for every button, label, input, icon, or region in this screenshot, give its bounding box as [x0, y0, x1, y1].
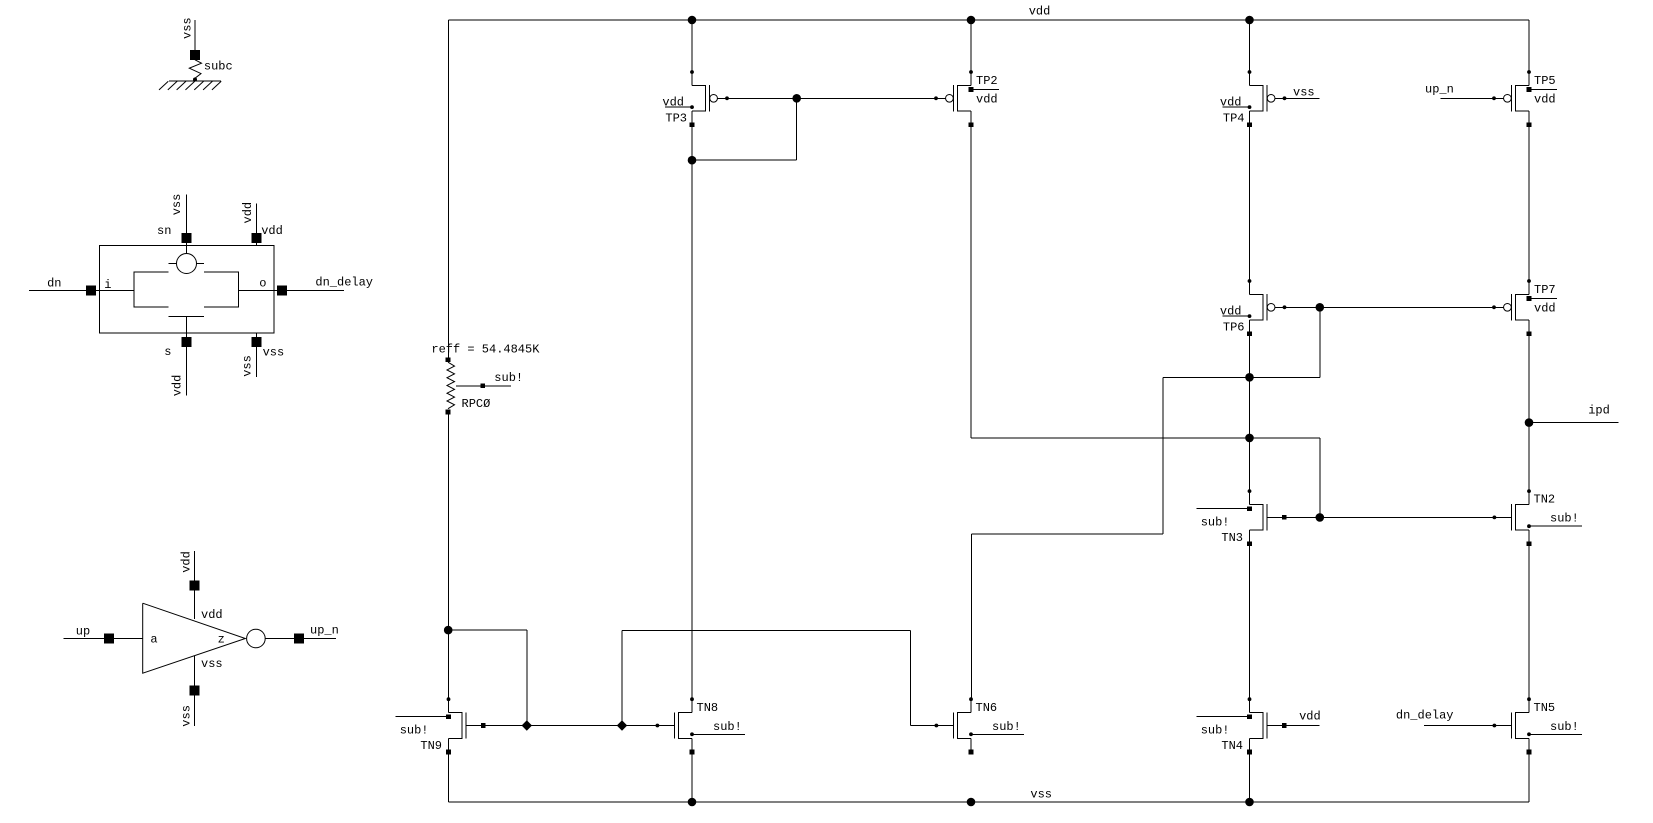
svg-text:TN8: TN8 — [697, 701, 719, 715]
svg-text:TN4: TN4 — [1221, 739, 1243, 753]
svg-text:dn: dn — [47, 276, 61, 290]
transistor TP7 — [1492, 279, 1557, 336]
net label vss — [1030, 788, 1052, 802]
transistor TP4 — [1220, 70, 1287, 127]
wire col4 (TP4/TP6/TN3/TN4) — [1249, 20, 1251, 802]
svg-text:vdd: vdd — [1220, 96, 1242, 110]
svg-text:sub!: sub! — [992, 720, 1021, 734]
net label dn_delay — [1396, 709, 1454, 723]
wire TP6 diode connection — [1163, 307, 1320, 377]
svg-text:TP3: TP3 — [665, 112, 687, 126]
pin vss of inverter — [190, 656, 223, 726]
svg-text:z: z — [218, 632, 225, 646]
junction vdd rail at TP3 — [688, 16, 697, 25]
wire gate node to resistor node — [449, 630, 527, 725]
junction TP6 gate node — [1316, 303, 1325, 312]
transistor TN6 — [935, 697, 1025, 754]
vdd rail (top) — [449, 19, 1530, 21]
bulk stub sub! of RPC0 — [456, 371, 523, 388]
transistor TN3 — [1197, 489, 1287, 546]
junction vss rail at TN4 — [1245, 798, 1254, 807]
svg-text:sub!: sub! — [1201, 724, 1230, 738]
net label vdd (vertical) — [170, 375, 184, 397]
wire TN3 gate to TN2 gate — [1267, 516, 1511, 518]
junction resistor bottom node — [444, 626, 453, 635]
svg-text:sub!: sub! — [713, 720, 742, 734]
svg-text:sub!: sub! — [400, 724, 429, 738]
svg-text:TN6: TN6 — [976, 701, 998, 715]
net label vss (vertical) — [179, 705, 193, 727]
wire left column to vss rail — [448, 752, 450, 802]
wire gate node to TN6 gate — [622, 630, 953, 725]
pin vss bottom — [251, 333, 284, 377]
label subc — [204, 59, 233, 73]
wire TP3 gate to TP2 gate — [718, 97, 946, 99]
net label vss (vertical) — [170, 194, 184, 216]
svg-text:vss: vss — [1293, 86, 1315, 100]
svg-text:up_n: up_n — [1425, 83, 1454, 97]
input wire up — [64, 625, 143, 644]
svg-text:vdd: vdd — [976, 93, 998, 107]
inverter I_up_n triangle — [143, 603, 246, 673]
svg-text:TP4: TP4 — [1223, 112, 1245, 126]
svg-text:TN2: TN2 — [1534, 493, 1556, 507]
net label vdd — [1029, 5, 1051, 19]
transistor TN9 — [396, 697, 486, 754]
wire col3 (TP2 drain) — [970, 20, 972, 438]
junction vss rail at TN8 — [688, 798, 697, 807]
junction vdd rail at TP2 — [967, 16, 976, 25]
svg-text:TP6: TP6 — [1223, 321, 1245, 335]
transmission gate bottom gate bar — [168, 316, 204, 395]
svg-text:vdd: vdd — [179, 551, 193, 573]
svg-text:TP5: TP5 — [1534, 74, 1556, 88]
transistor TP5 — [1492, 70, 1557, 127]
wire TN9 gate to TN8 gate — [466, 725, 674, 727]
svg-text:sub!: sub! — [1550, 512, 1579, 526]
transistor TN8 — [656, 697, 746, 754]
svg-text:sub!: sub! — [1201, 515, 1230, 529]
net label vdd (vertical) — [241, 202, 255, 224]
svg-text:vdd: vdd — [1029, 5, 1051, 19]
wire left column bottom — [448, 414, 450, 700]
label reff = 54.4845K — [431, 343, 540, 357]
svg-text:ipd: ipd — [1588, 404, 1610, 418]
svg-text:vdd: vdd — [662, 96, 684, 110]
svg-text:RPCØ: RPCØ — [462, 397, 491, 411]
svg-text:vdd: vdd — [170, 375, 184, 397]
junction TN3 gate node — [1316, 513, 1325, 522]
svg-text:vdd: vdd — [1534, 93, 1556, 107]
svg-text:reff = 54.4845K: reff = 54.4845K — [431, 343, 540, 357]
transistor TP6 — [1220, 279, 1287, 336]
wire output ipd — [1529, 422, 1618, 424]
svg-text:vss: vss — [201, 657, 223, 671]
junction TP3 gate node — [792, 94, 801, 103]
transistor TN2 — [1493, 489, 1583, 546]
svg-text:TN9: TN9 — [420, 739, 442, 753]
ground — [159, 78, 221, 90]
svg-text:subc: subc — [204, 59, 233, 73]
transistor TN4 — [1197, 697, 1287, 754]
svg-text:vdd: vdd — [241, 202, 255, 224]
wire TP6 gate to TP7 gate — [1275, 306, 1504, 308]
svg-text:TN3: TN3 — [1221, 531, 1243, 545]
junction vdd rail at TP4 — [1245, 16, 1254, 25]
junction vss rail at TN6 — [967, 798, 976, 807]
transistor TN5 — [1493, 697, 1583, 754]
junction TP6 drain node — [1245, 373, 1254, 382]
wire mid column (TP3/TN8) — [691, 20, 693, 802]
svg-text:vdd: vdd — [201, 608, 223, 622]
svg-text:vdd: vdd — [1220, 305, 1242, 319]
wire node to TN6 drain — [971, 377, 1162, 699]
resistor subc — [189, 60, 201, 78]
svg-text:vss: vss — [1030, 788, 1052, 802]
svg-text:vss: vss — [241, 355, 255, 377]
svg-text:vss: vss — [263, 346, 285, 360]
wire TP5 gate stub up_n — [1441, 97, 1504, 99]
net label vss (vertical) — [181, 17, 195, 39]
pin sn — [157, 194, 191, 253]
pin i / input wire dn — [29, 276, 134, 295]
wire TP4 gate stub to vss — [1275, 97, 1320, 99]
resistor RPC0 — [446, 358, 455, 415]
pin vdd of inverter — [190, 551, 223, 622]
svg-text:TP7: TP7 — [1534, 283, 1556, 297]
net label vss at TP4 gate — [1293, 86, 1315, 100]
wire TN4 gate stub to vdd — [1267, 725, 1319, 727]
svg-text:up: up — [76, 625, 90, 639]
svg-text:a: a — [150, 632, 157, 646]
svg-text:TN5: TN5 — [1534, 701, 1556, 715]
delay cell I_dn_delay box — [99, 246, 274, 334]
svg-text:dn_delay: dn_delay — [1396, 709, 1454, 723]
net label ipd — [1588, 404, 1610, 418]
svg-text:vss: vss — [170, 194, 184, 216]
junction ipd node — [1525, 418, 1534, 427]
junction TP3 drain node — [688, 156, 697, 165]
junction TN3 drain node — [1245, 434, 1254, 443]
junction TN9 gate node — [522, 720, 532, 730]
net label vss (vertical) — [241, 355, 255, 377]
pin s bottom — [164, 337, 191, 359]
svg-text:vdd: vdd — [261, 224, 283, 238]
wire col5 (TP5/TP7/TN2/TN5) — [1528, 20, 1530, 802]
wire TN5 gate stub dn_delay — [1424, 725, 1511, 727]
transmission gate circle — [168, 254, 204, 274]
transmission gate body — [134, 272, 238, 307]
wire TP3 gate-drain feedback — [692, 98, 797, 160]
svg-text:sn: sn — [157, 224, 171, 238]
svg-text:vss: vss — [179, 705, 193, 727]
svg-text:o: o — [259, 276, 266, 290]
inverter output bubble — [247, 629, 266, 648]
svg-text:vdd: vdd — [1299, 710, 1321, 724]
svg-text:sub!: sub! — [1550, 720, 1579, 734]
svg-text:sub!: sub! — [494, 371, 523, 385]
svg-text:i: i — [104, 278, 111, 292]
net label vdd (vertical) — [179, 551, 193, 573]
transistor TP2 — [934, 70, 999, 127]
svg-text:dn_delay: dn_delay — [315, 276, 373, 290]
net label vdd at TN4 gate — [1299, 710, 1321, 724]
transistor TP3 — [662, 70, 729, 127]
svg-text:s: s — [164, 345, 171, 359]
pin vdd top — [251, 204, 282, 246]
svg-text:vdd: vdd — [1534, 302, 1556, 316]
svg-text:up_n: up_n — [310, 623, 339, 637]
ground vss port (subc symbol pin) — [190, 20, 200, 60]
output wire up_n — [265, 623, 339, 643]
svg-text:vss: vss — [181, 17, 195, 39]
wire left column top — [448, 20, 450, 359]
pin o / output wire dn_delay — [238, 276, 373, 296]
vss rail (bottom) — [449, 801, 1530, 803]
junction TN8 gate node — [617, 720, 627, 730]
net label up_n — [1425, 83, 1454, 97]
svg-text:TP2: TP2 — [976, 74, 998, 88]
label RPC0 — [462, 397, 491, 411]
wire TP2 drain to TN3 mirror node — [971, 438, 1320, 518]
